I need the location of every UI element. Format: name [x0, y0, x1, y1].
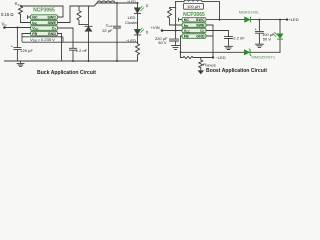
svg-text:50 V: 50 V — [158, 40, 167, 45]
svg-text:Buck Application Circuit: Buck Application Circuit — [37, 70, 96, 76]
svg-text:FB: FB — [184, 34, 189, 38]
svg-text:D: D — [146, 30, 149, 34]
svg-text:SWE: SWE — [196, 23, 205, 27]
svg-text:50 V: 50 V — [263, 37, 272, 42]
svg-text:Cluster: Cluster — [125, 20, 138, 25]
svg-text:−LED: −LED — [216, 55, 226, 60]
svg-text:0.15 Ω: 0.15 Ω — [1, 12, 13, 17]
svg-text:NC: NC — [32, 15, 38, 19]
svg-text:2.2 nF: 2.2 nF — [76, 48, 88, 53]
svg-text:+LED: +LED — [127, 0, 136, 4]
svg-text:SWE: SWE — [48, 21, 57, 25]
svg-text:VCC: VCC — [184, 29, 190, 34]
svg-text:MMSZ5V6T1: MMSZ5V6T1 — [252, 55, 276, 60]
svg-text:−LED: −LED — [126, 38, 136, 43]
svg-text:SWC: SWC — [196, 18, 205, 22]
svg-text:RS: RS — [15, 1, 20, 7]
svg-text:VFB = 0.235 V: VFB = 0.235 V — [30, 37, 55, 43]
svg-text:220 µF: 220 µF — [20, 48, 33, 53]
svg-text:GND: GND — [196, 34, 205, 38]
svg-text:NCP3065: NCP3065 — [183, 12, 205, 18]
svg-text:CT: CT — [52, 26, 57, 31]
svg-text:NCP3065: NCP3065 — [33, 8, 55, 14]
svg-text:IPK: IPK — [32, 21, 37, 26]
svg-text:CT: CT — [200, 29, 205, 34]
svg-text:+LED: +LED — [289, 17, 299, 22]
svg-text:GND: GND — [48, 32, 57, 36]
svg-text:FB: FB — [32, 32, 37, 36]
svg-text:D: D — [146, 4, 149, 8]
svg-text:IPK: IPK — [184, 23, 189, 28]
svg-text:VCC: VCC — [32, 26, 38, 31]
svg-text:RSENSE: RSENSE — [203, 62, 216, 68]
svg-text:Boost Application Circuit: Boost Application Circuit — [206, 68, 267, 74]
svg-text:Vin: Vin — [2, 21, 7, 27]
svg-text:NC: NC — [184, 18, 190, 22]
svg-text:MBRS140L: MBRS140L — [239, 9, 260, 14]
svg-text:SWC: SWC — [47, 15, 56, 19]
svg-text:+VIN: +VIN — [151, 25, 160, 30]
svg-text:2.2 nF: 2.2 nF — [233, 36, 245, 41]
svg-text:22 µF: 22 µF — [102, 28, 113, 33]
svg-text:100 µH: 100 µH — [187, 4, 200, 9]
